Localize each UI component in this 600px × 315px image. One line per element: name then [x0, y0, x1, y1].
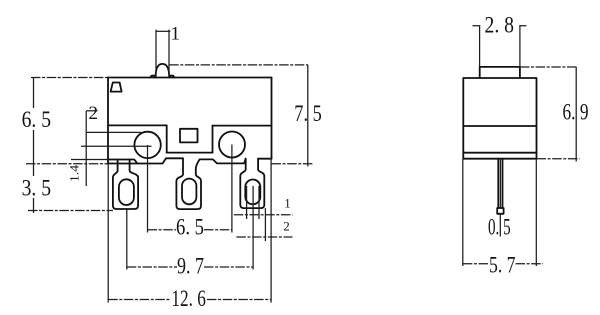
dim 1 right extension: [168, 30, 170, 77]
svg-text:9. 7: 9. 7: [177, 253, 204, 278]
side pin foot: [497, 208, 503, 214]
dim 2 tick: [86, 110, 97, 112]
middle terminal oval hole: [182, 179, 196, 205]
body bottom extension to left: [26, 163, 108, 165]
left circle center vertical extension: [147, 145, 149, 233]
dim 5.7 line: [463, 263, 543, 265]
dim 7.5 bottom extension: [272, 163, 314, 165]
right terminal: [240, 159, 264, 208]
interior shelf line right: [213, 125, 272, 127]
right body edge vertical extension: [270, 159, 272, 303]
right terminal vertical extension: [252, 186, 254, 270]
bottom edge high row right of middle neck: [200, 159, 246, 164]
dim 6.9 vertical: [575, 67, 577, 162]
bottom edge high row left: [108, 160, 137, 164]
svg-text:1: 1: [284, 196, 291, 211]
dim 2.8 left extension: [479, 26, 481, 67]
dim 2.8 right extension: [519, 26, 521, 67]
right terminal extension b: [258, 186, 260, 219]
small rectangle window: [180, 129, 198, 143]
dim 1 plunger width: left extension: [155, 30, 157, 77]
plunger right ear: [169, 76, 174, 78]
side body outline: [463, 78, 536, 159]
right terminal extension a: [246, 186, 248, 219]
left mounting hole circle: [134, 132, 160, 158]
plunger left ear: [151, 76, 156, 78]
left body edge vertical extension: [107, 164, 109, 303]
side interior line upper: [463, 125, 536, 127]
dim 6.9 bottom extension: [537, 158, 580, 160]
svg-text:12. 6: 12. 6: [171, 286, 206, 311]
extension line upper (to dim 2): [86, 131, 141, 133]
right terminal oval hole: [245, 180, 260, 205]
svg-text:6. 9: 6. 9: [563, 99, 589, 124]
bottom edge segment far right: [258, 158, 271, 160]
left circle center line: [81, 145, 152, 147]
svg-text:6. 5: 6. 5: [176, 215, 204, 240]
extension line lower (1.4 bottom): [71, 159, 108, 161]
dim 9.7 line: [127, 266, 253, 268]
dim 6.5 bottom line: [148, 229, 232, 231]
svg-text:5. 7: 5. 7: [489, 252, 516, 277]
dim 2.8 line ticks: [473, 25, 527, 27]
terminal bottom extension to left: [28, 210, 113, 212]
side pin middle line: [499, 159, 501, 208]
left terminal vertical extension: [126, 209, 128, 270]
dim 12.6 line: [108, 299, 271, 301]
dim 5.7 left extension: [462, 159, 464, 266]
dim 1 tick: [156, 30, 170, 32]
interior step right: [212, 126, 214, 153]
body left edge: [107, 78, 109, 164]
svg-text:3. 5: 3. 5: [22, 175, 51, 200]
interior recess line: [167, 152, 213, 154]
plunger dome: [156, 64, 170, 77]
svg-text:6. 5: 6. 5: [22, 107, 51, 132]
left terminal oval hole: [119, 179, 134, 205]
right circle center vertical extension: [231, 145, 233, 233]
svg-text:1.4: 1.4: [68, 164, 82, 182]
dim 6.5 left vertical: [33, 78, 35, 164]
body top edge: [108, 77, 272, 79]
dim 3.5 vertical: [33, 164, 35, 213]
svg-text:2: 2: [89, 103, 99, 124]
side pin right edge: [502, 159, 504, 208]
dim 2 vertical: [85, 111, 87, 186]
svg-text:1: 1: [171, 23, 181, 44]
trapezoid mark: [111, 83, 122, 92]
side plunger: [480, 67, 520, 78]
dim 7.5 top line: [169, 64, 308, 66]
middle terminal: [176, 158, 201, 209]
body right edge: [271, 78, 273, 159]
body top extension to left: [31, 77, 108, 79]
right dim 2 line: [236, 236, 292, 238]
left terminal: [113, 159, 138, 209]
dim 6.9 top extension: [520, 66, 578, 68]
right terminal extension c: [264, 208, 266, 241]
interior step left: [166, 125, 168, 152]
dim 7.5 vertical: [307, 65, 309, 167]
svg-text:0. 5: 0. 5: [488, 214, 511, 239]
dim 0.5 vertical: [499, 214, 501, 237]
dim 5.7 right extension: [535, 159, 537, 266]
right mounting hole circle: [219, 132, 245, 158]
svg-text:2: 2: [283, 218, 290, 233]
svg-text:7. 5: 7. 5: [294, 101, 322, 126]
interior shelf line left: [108, 124, 167, 126]
right dim 1 line: [234, 214, 293, 216]
side pin left edge: [497, 159, 499, 208]
side interior line lower: [463, 152, 536, 154]
bottom edge low row under left circle: [108, 158, 183, 163]
svg-text:2. 8: 2. 8: [485, 13, 515, 38]
